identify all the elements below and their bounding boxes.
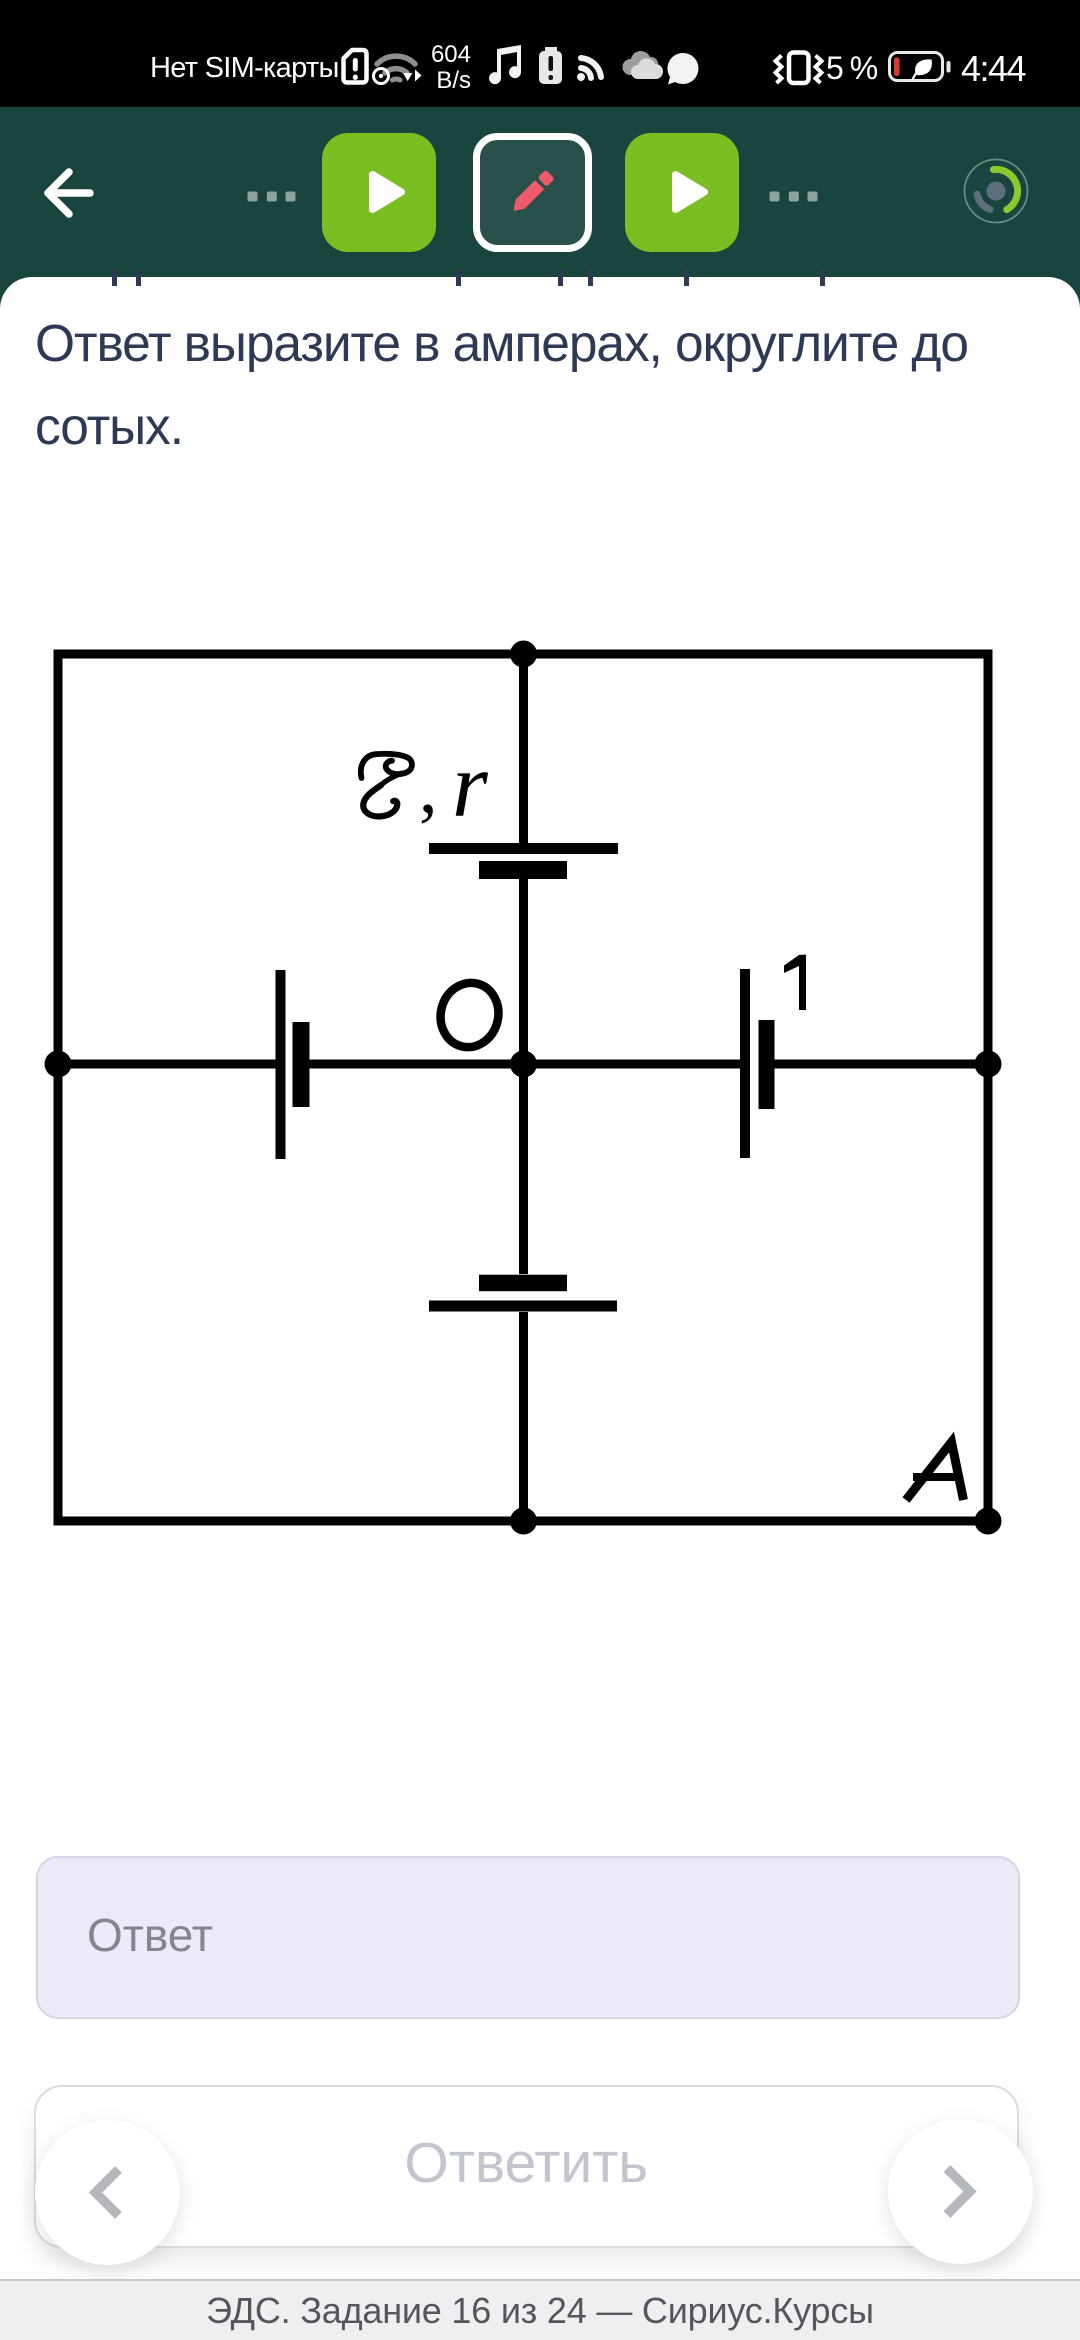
- svg-text:B/s: B/s: [436, 67, 471, 94]
- svg-text:4:44: 4:44: [961, 48, 1026, 89]
- svg-text:,: ,: [419, 747, 438, 829]
- svg-text:604: 604: [431, 41, 471, 68]
- svg-text:r: r: [452, 734, 489, 836]
- svg-text:5 %: 5 %: [826, 50, 878, 86]
